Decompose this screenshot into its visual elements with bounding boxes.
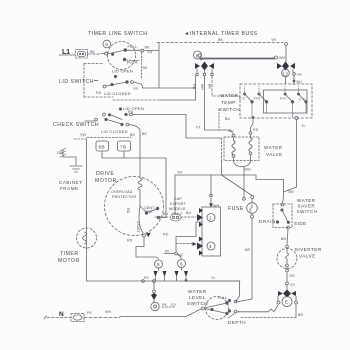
svg-text:WATER: WATER xyxy=(188,289,207,294)
svg-text:8: 8 xyxy=(157,262,160,267)
svg-text:PROTECTOR: PROTECTOR xyxy=(112,195,137,199)
svg-text:WH: WH xyxy=(279,56,285,60)
svg-text:SAVER: SAVER xyxy=(298,204,316,209)
svg-text:LID OPEN: LID OPEN xyxy=(123,106,144,111)
svg-text:BU: BU xyxy=(225,117,230,121)
svg-text:YL: YL xyxy=(211,276,216,280)
svg-text:WATER: WATER xyxy=(220,93,239,98)
svg-text:WATER: WATER xyxy=(297,198,316,203)
svg-text:WH: WH xyxy=(213,204,219,208)
svg-text:WH: WH xyxy=(245,168,251,172)
svg-text:6: 6 xyxy=(196,54,199,59)
svg-text:BN: BN xyxy=(281,237,286,241)
svg-text:PK: PK xyxy=(144,276,149,280)
svg-text:PULL: PULL xyxy=(128,45,138,49)
svg-text:DEPTH: DEPTH xyxy=(228,320,246,325)
svg-text:LID OPEN: LID OPEN xyxy=(112,69,133,74)
svg-text:SIDE: SIDE xyxy=(294,221,307,226)
svg-text:FRAME: FRAME xyxy=(60,186,79,191)
svg-text:E: E xyxy=(285,300,289,305)
svg-text:RD: RD xyxy=(127,239,133,243)
svg-text:BR: BR xyxy=(245,248,250,252)
svg-text:YR: YR xyxy=(147,51,152,55)
svg-text:SW: SW xyxy=(146,210,153,214)
svg-text:TIMER LINE SWITCH: TIMER LINE SWITCH xyxy=(88,31,148,37)
svg-text:SWITCH: SWITCH xyxy=(297,209,318,214)
svg-text:CAP: CAP xyxy=(174,197,182,201)
svg-text:YW: YW xyxy=(80,133,86,137)
svg-text:H-C: H-C xyxy=(280,97,287,101)
svg-text:BU: BU xyxy=(297,80,302,84)
svg-text:MOTOR: MOTOR xyxy=(58,258,80,264)
svg-text:WH: WH xyxy=(105,310,111,314)
svg-text:EXPORT: EXPORT xyxy=(170,202,187,206)
svg-text:50: 50 xyxy=(165,250,169,254)
svg-text:LID SWITCH: LID SWITCH xyxy=(59,79,94,85)
svg-text:BK: BK xyxy=(90,50,95,54)
svg-text:RD: RD xyxy=(290,274,296,278)
svg-text:ONLY: ONLY xyxy=(172,212,183,216)
svg-text:CHECK SWITCH: CHECK SWITCH xyxy=(53,122,99,128)
svg-text:FUSE: FUSE xyxy=(228,206,244,212)
svg-text:YR: YR xyxy=(177,171,182,175)
svg-text:RD: RD xyxy=(128,110,134,114)
svg-text:VT: VT xyxy=(196,126,201,130)
svg-text:BK: BK xyxy=(218,38,223,42)
svg-text:PK: PK xyxy=(87,311,92,315)
svg-text:BK: BK xyxy=(208,84,212,89)
svg-text:4: 4 xyxy=(209,244,212,249)
svg-text:YR: YR xyxy=(271,38,276,42)
svg-text:RD: RD xyxy=(253,128,259,132)
svg-text:C-C: C-C xyxy=(299,98,306,102)
svg-text:BN: BN xyxy=(289,190,294,194)
svg-text:BK: BK xyxy=(142,132,147,136)
svg-text:YL: YL xyxy=(301,124,306,128)
svg-text:START: START xyxy=(136,221,140,234)
svg-text:BR: BR xyxy=(298,313,303,317)
svg-text:FULL: FULL xyxy=(218,296,228,300)
svg-text:LEVEL: LEVEL xyxy=(189,295,206,300)
svg-text:WATER: WATER xyxy=(264,145,283,150)
svg-text:RD: RD xyxy=(192,84,196,90)
svg-text:SWITCH: SWITCH xyxy=(187,301,208,306)
svg-text:BU: BU xyxy=(186,211,191,215)
svg-text:PUSH: PUSH xyxy=(127,61,138,65)
svg-text:12: 12 xyxy=(282,71,288,76)
svg-text:RD: RD xyxy=(126,208,130,214)
svg-text:SWITCH: SWITCH xyxy=(219,107,240,112)
svg-text:6: 6 xyxy=(180,262,183,267)
svg-text:GY: GY xyxy=(171,303,177,307)
svg-text:DIVERTER: DIVERTER xyxy=(295,247,322,252)
svg-text:H-S: H-S xyxy=(254,97,261,101)
svg-text:PK: PK xyxy=(162,303,167,307)
svg-text:VALVE: VALVE xyxy=(299,254,316,259)
svg-text:YR: YR xyxy=(297,73,302,77)
svg-text:BK: BK xyxy=(145,46,150,50)
svg-text:MODELS: MODELS xyxy=(169,207,186,211)
svg-text:BK: BK xyxy=(143,66,148,70)
svg-text:RD: RD xyxy=(163,233,169,237)
svg-text:VALVE: VALVE xyxy=(266,152,283,157)
svg-text:N2: N2 xyxy=(178,253,183,257)
svg-text:DRAIN: DRAIN xyxy=(259,219,276,224)
svg-text:L1: L1 xyxy=(62,49,70,56)
svg-text:C-C: C-C xyxy=(239,97,246,101)
svg-text:2: 2 xyxy=(209,216,212,221)
svg-text:YR: YR xyxy=(133,87,138,91)
svg-text:CABINET: CABINET xyxy=(59,180,82,185)
svg-text:LID CLOSED: LID CLOSED xyxy=(101,129,128,134)
svg-text:◄INTERNAL TIMER BUSS: ◄INTERNAL TIMER BUSS xyxy=(184,31,258,37)
svg-text:GN: GN xyxy=(57,151,63,155)
svg-text:OVERLOAD: OVERLOAD xyxy=(111,190,133,194)
svg-text:DRIVE: DRIVE xyxy=(96,171,114,177)
svg-text:RD: RD xyxy=(96,91,102,95)
svg-text:9B: 9B xyxy=(99,145,106,150)
svg-text:WH: WH xyxy=(200,84,204,90)
svg-text:7B: 7B xyxy=(120,145,127,150)
svg-text:LID CLOSED: LID CLOSED xyxy=(104,91,131,96)
svg-text:N: N xyxy=(59,311,64,318)
svg-text:9: 9 xyxy=(105,42,108,47)
svg-text:TIMER: TIMER xyxy=(60,251,79,257)
svg-text:BU: BU xyxy=(229,129,234,133)
svg-text:MOTOR: MOTOR xyxy=(95,178,117,184)
svg-text:GY: GY xyxy=(290,283,296,287)
svg-text:BU: BU xyxy=(163,212,168,216)
svg-text:BK: BK xyxy=(130,133,135,137)
svg-text:TEMP: TEMP xyxy=(221,100,236,105)
